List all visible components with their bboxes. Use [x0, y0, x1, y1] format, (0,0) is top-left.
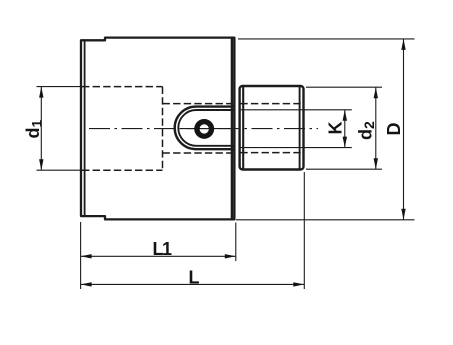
dimension K line: [344, 110, 346, 147]
slot hidden top line: [163, 103, 232, 105]
dimension L1 right extension: [235, 223, 237, 262]
dimension L right extension: [303, 172, 305, 289]
dimension L1 left extension: [80, 222, 82, 289]
square socket flat bottom line / K extension: [240, 147, 351, 149]
right cylinder right chamfer line: [299, 87, 301, 170]
dimension d2 extension top: [306, 86, 382, 88]
slot hidden bottom line: [163, 152, 232, 154]
dimension d2 extension bottom: [306, 168, 382, 170]
bore end hidden vertical: [162, 87, 164, 171]
dimension d1 line: [40, 87, 42, 170]
main body outline: [81, 38, 234, 220]
clamp screw: [197, 122, 212, 137]
main body right face inner line: [231, 38, 234, 220]
dimension D extension bottom: [236, 219, 415, 221]
dimension L1 line: [81, 255, 235, 257]
svg-text:D: D: [384, 123, 404, 136]
dimension d1 extension bottom: [37, 169, 81, 171]
clamp inner contour: [178, 110, 234, 146]
square socket flat top line / K extension: [240, 109, 351, 111]
square socket hidden bottom line: [240, 152, 303, 154]
main body left face inner line: [84, 40, 86, 216]
bore d1 hidden bottom line: [82, 169, 163, 171]
dimension D line: [403, 39, 405, 219]
svg-text:L1: L1: [153, 239, 172, 259]
dimension L line: [81, 283, 304, 285]
square socket hidden top line: [240, 103, 303, 105]
right cylinder left chamfer line: [242, 87, 244, 170]
dimension d2 line: [375, 88, 377, 170]
bore d1 hidden top line: [82, 86, 163, 88]
svg-text:K: K: [326, 122, 346, 135]
centerline axis: [89, 128, 318, 130]
clamp outer contour: [175, 107, 235, 150]
centerline solid segment through clamp: [181, 128, 231, 130]
right cylinder outline: [240, 86, 304, 170]
svg-text:L: L: [189, 268, 200, 288]
dimension d1 extension top: [37, 86, 81, 88]
dimension D extension top: [238, 38, 415, 40]
